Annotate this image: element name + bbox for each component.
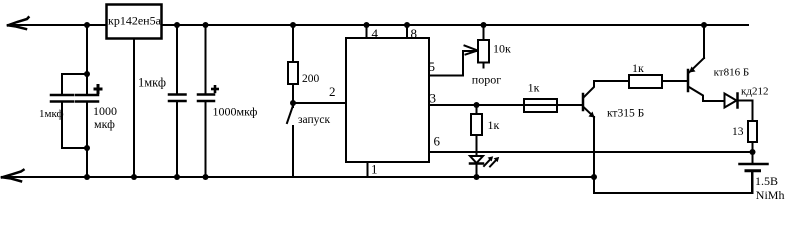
battery minus lead <box>752 172 754 193</box>
svg-text:5: 5 <box>429 59 436 74</box>
wire branch to C1 top <box>62 74 87 95</box>
wire R6 to battery <box>752 142 754 163</box>
svg-text:кт816 Б: кт816 Б <box>714 67 750 79</box>
wire switch lower contact to ground <box>292 126 294 177</box>
svg-text:1.5В: 1.5В <box>755 174 778 188</box>
battery GB1 plus plate <box>740 163 768 166</box>
svg-text:6: 6 <box>434 134 441 149</box>
Q2 emitter arrow (PNP, points to base) <box>689 67 696 73</box>
node C1 bottom branch <box>84 145 90 151</box>
svg-text:1000: 1000 <box>93 104 117 118</box>
wire top supply rail left segment <box>8 24 106 26</box>
capacitor C1 1mkf plates <box>51 94 73 97</box>
wire C1 bottom return <box>62 102 87 149</box>
node LED ground <box>474 174 480 180</box>
svg-text:кд212: кд212 <box>741 85 768 97</box>
Q1 collector <box>584 81 629 97</box>
label C2 plus <box>94 84 103 94</box>
svg-text:порог: порог <box>472 73 501 87</box>
svg-text:запуск: запуск <box>298 114 331 126</box>
svg-text:10к: 10к <box>493 42 511 56</box>
node rail pot <box>481 22 487 28</box>
svg-text:кт315 Б: кт315 Б <box>607 107 644 119</box>
resistor R6 13 <box>748 121 757 142</box>
capacitor C3 1mkf vertical x177 <box>176 25 178 95</box>
wire top supply rail right segment <box>162 24 748 26</box>
Q1 emitter with arrow <box>584 108 594 118</box>
capacitor C4 1000mkf vertical x205.5 <box>205 25 207 95</box>
wire R5 to Q2 base <box>662 80 687 82</box>
svg-text:кр142ен5а: кр142ен5а <box>108 14 162 28</box>
svg-text:4: 4 <box>372 26 379 41</box>
node ground C3 <box>174 174 180 180</box>
switch zapusk blade <box>287 107 293 123</box>
diode VD2 kd212 <box>725 94 737 108</box>
node rail-cap branch <box>84 22 90 28</box>
resistor R3 1k vertical for LED <box>476 105 478 114</box>
label C4 plus <box>211 85 219 93</box>
node rail R1 <box>290 22 296 28</box>
svg-text:1к: 1к <box>528 80 540 94</box>
potentiometer R2 10k stub from rail <box>483 25 485 40</box>
svg-text:8: 8 <box>411 26 418 41</box>
wire below R1 <box>292 84 294 107</box>
capacitor C2 1000mkf plates <box>76 94 98 97</box>
wire pin6 <box>429 151 753 153</box>
svg-text:2: 2 <box>329 84 336 99</box>
LED cathode bar <box>470 162 483 165</box>
node ground regulator <box>131 174 137 180</box>
wire pin4 stub <box>366 25 368 38</box>
svg-text:200: 200 <box>302 73 320 85</box>
resistor R4 1k horizontal to Q1 base <box>524 99 557 112</box>
svg-text:1000мкф: 1000мкф <box>213 105 258 119</box>
svg-text:3: 3 <box>430 90 437 105</box>
battery GB1 minus plate <box>746 169 760 172</box>
Q1 emitter wire down <box>593 117 595 177</box>
wire pin2 <box>293 102 346 104</box>
svg-text:1мкф: 1мкф <box>39 108 64 120</box>
svg-text:13: 13 <box>732 126 744 138</box>
wire pin5 <box>429 51 476 76</box>
node ground x87 <box>84 174 90 180</box>
Q2 emitter from rail <box>703 25 705 58</box>
wire pin3 <box>429 104 583 106</box>
potentiometer wiper arrow <box>465 46 478 51</box>
node pin6 battery <box>750 149 756 155</box>
node rail Q2 <box>701 22 707 28</box>
LED wire to ground <box>476 164 478 178</box>
resistor R1 200 branch wire <box>292 25 294 62</box>
wire capacitor branch vertical x87 <box>86 25 88 95</box>
wire pin8 stub <box>406 25 408 38</box>
regulator ground pin wire <box>133 39 135 178</box>
potentiometer bottom stub <box>483 63 485 68</box>
wire diode to R6 <box>738 101 753 122</box>
resistor R5 1k horizontal to Q2 base <box>629 75 662 88</box>
svg-text:NiMh: NiMh <box>756 188 785 202</box>
Q2 collector <box>689 87 725 101</box>
svg-text:1к: 1к <box>488 118 500 132</box>
node ground C4 <box>203 174 209 180</box>
arrow top-left input <box>8 17 29 25</box>
svg-text:1: 1 <box>371 162 378 177</box>
regulator U1 kr142en5a box <box>107 5 162 39</box>
node pin2 junction <box>290 100 296 106</box>
wire ground jog down to battery minus <box>594 172 752 193</box>
node C1 top branch <box>84 71 90 77</box>
IC U2 timer box <box>346 38 429 162</box>
Q2 base bar <box>687 70 690 91</box>
potentiometer R2 10k body <box>478 40 489 63</box>
Q1 base bar <box>582 94 585 110</box>
LED VD1 triangle <box>470 156 483 163</box>
node pin3 branch <box>474 102 480 108</box>
node rail C4 <box>203 22 209 28</box>
wire pin1 stub <box>367 162 369 177</box>
node rail pin4 <box>364 22 370 28</box>
node rail C3 <box>174 22 180 28</box>
LED emission arrows <box>484 159 497 167</box>
svg-text:1к: 1к <box>632 61 644 75</box>
arrow bottom-left input <box>2 170 24 178</box>
resistor R1 200 body <box>288 62 298 84</box>
node rail pin8 <box>404 22 410 28</box>
node emitter ground <box>591 174 597 180</box>
svg-text:мкф: мкф <box>94 117 115 131</box>
svg-text:1мкф: 1мкф <box>138 76 166 90</box>
wire bottom ground rail <box>2 176 595 178</box>
